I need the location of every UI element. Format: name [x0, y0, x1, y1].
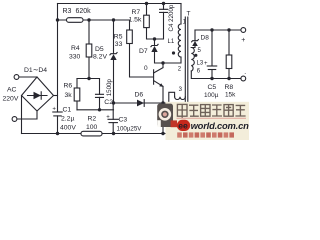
- node R3 left junction: [56, 18, 59, 21]
- node R8 bottom junction: [227, 77, 230, 80]
- svg-text:L1: L1: [168, 39, 175, 45]
- diode D7: [154, 39, 156, 45]
- svg-text:15k: 15k: [225, 91, 236, 98]
- diode D5 zener: [110, 53, 117, 55]
- node L1 phase dot: [172, 51, 175, 54]
- svg-text:33: 33: [115, 41, 123, 48]
- node R4 bottom junction: [87, 77, 90, 80]
- wire secondary bottom: [191, 71, 241, 79]
- svg-text:D1∼D4: D1∼D4: [24, 67, 47, 74]
- svg-text:8.2V: 8.2V: [93, 53, 107, 60]
- wire R6 C2 bottom link: [77, 109, 114, 111]
- resistor R6: [74, 88, 80, 101]
- capacitor C1: [53, 111, 62, 113]
- wire bottom rail: [22, 133, 191, 135]
- node L3 phase dot: [194, 54, 197, 57]
- resistor R7: [147, 4, 155, 40]
- svg-text:R4: R4: [71, 45, 80, 52]
- wire D5 branch: [113, 20, 115, 103]
- svg-text:100µ: 100µ: [204, 92, 219, 99]
- diode D8: [194, 30, 196, 41]
- node emitter D6 junction: [161, 101, 164, 104]
- svg-text:1: 1: [183, 20, 187, 26]
- node collector junction: [161, 61, 164, 64]
- transistor Q1 collector: [154, 63, 163, 73]
- wire bridge left vertex down: [21, 96, 23, 134]
- node D5 top junction: [112, 18, 115, 21]
- wire D6 row: [114, 102, 169, 104]
- svg-text:C2: C2: [104, 99, 113, 106]
- node C1 bottom junction: [56, 132, 59, 135]
- svg-text:R6: R6: [64, 82, 73, 89]
- capacitor C2: [96, 94, 104, 97]
- wire R3 row: [58, 19, 130, 21]
- transistor Q1 base bar: [153, 70, 155, 84]
- svg-text:1.5k: 1.5k: [129, 16, 142, 23]
- wire L2 hook: [169, 92, 175, 103]
- svg-text:1500p: 1500p: [106, 79, 113, 97]
- watermark: [157, 102, 249, 140]
- capacitor C4: [155, 4, 164, 40]
- wire left rail: [57, 4, 59, 113]
- svg-text:C5: C5: [208, 84, 217, 91]
- node C5 bottom junction: [210, 77, 213, 80]
- svg-text:220V: 220V: [3, 96, 19, 103]
- node R4 top junction: [87, 18, 90, 21]
- inductor L3 secondary winding: [191, 48, 194, 72]
- node C5 top junction: [210, 28, 213, 31]
- node R7 top junction: [145, 2, 148, 5]
- svg-text:T: T: [187, 11, 191, 18]
- svg-text:L3: L3: [197, 61, 204, 67]
- svg-text:D6: D6: [135, 91, 144, 98]
- svg-text:400V: 400V: [60, 124, 76, 131]
- resistor R4: [86, 44, 92, 57]
- resistor R2: [81, 131, 102, 136]
- bridge rectifier D1-D4: [22, 77, 54, 111]
- svg-text:R2: R2: [88, 115, 97, 122]
- wire C3 branch: [112, 103, 114, 134]
- svg-text:C1: C1: [63, 106, 72, 113]
- svg-text:C3: C3: [119, 116, 128, 123]
- watermark url line: [177, 120, 249, 131]
- wire R6 leg: [76, 79, 78, 110]
- resistor R3: [67, 18, 84, 23]
- svg-text:5: 5: [198, 48, 202, 54]
- svg-text:+: +: [241, 37, 245, 44]
- terminal AC input 1: [14, 75, 19, 80]
- wire bar R6 C2: [77, 78, 100, 80]
- watermark underline: [177, 117, 247, 119]
- svg-text:+: +: [52, 106, 56, 112]
- svg-text:330: 330: [69, 54, 81, 61]
- svg-text:620k: 620k: [76, 8, 92, 15]
- svg-text:R3: R3: [63, 8, 72, 15]
- transistor Q1 emitter: [154, 81, 163, 87]
- wire R4 branch: [88, 20, 90, 79]
- node R8 top junction: [227, 28, 230, 31]
- inductor L2 feedback winding: [175, 97, 186, 100]
- svg-text:AC: AC: [7, 87, 17, 94]
- wire emitter down: [162, 86, 164, 133]
- resistor R8: [228, 30, 230, 79]
- diode D6: [137, 100, 144, 107]
- inductor L1 primary winding: [178, 24, 181, 57]
- svg-text:ee: ee: [178, 121, 188, 131]
- svg-text:R7: R7: [132, 9, 141, 16]
- node C4 top junction: [162, 2, 165, 5]
- terminal DC output minus: [241, 76, 246, 81]
- svg-text:D8: D8: [201, 35, 210, 42]
- svg-text:100: 100: [86, 124, 98, 131]
- svg-text:3: 3: [179, 87, 183, 93]
- node emitter bottom junction: [161, 132, 164, 135]
- svg-text:0: 0: [144, 65, 148, 72]
- svg-text:D7: D7: [139, 48, 148, 55]
- node C3 bottom junction: [112, 132, 115, 135]
- wire output top rail: [195, 29, 241, 31]
- svg-text:2: 2: [178, 67, 182, 73]
- terminal AC input 2: [12, 117, 17, 122]
- svg-text:+: +: [204, 61, 208, 67]
- terminal DC output plus: [241, 28, 246, 33]
- svg-text:-: -: [245, 71, 247, 77]
- svg-text:R5: R5: [114, 33, 123, 40]
- svg-text:6: 6: [197, 69, 201, 75]
- node D6 anode junction: [112, 101, 115, 104]
- svg-text:3k: 3k: [65, 92, 73, 99]
- capacitor C3: [108, 118, 118, 120]
- svg-text:100µ25V: 100µ25V: [117, 126, 143, 133]
- wire top rail: [58, 3, 182, 5]
- svg-text:C4 2200p: C4 2200p: [168, 4, 175, 31]
- wire bridge right vertex link: [54, 95, 58, 97]
- svg-text:world.com.cn: world.com.cn: [191, 120, 249, 131]
- svg-text:R8: R8: [225, 84, 234, 91]
- wire primary pin2 link: [163, 57, 181, 63]
- watermark CJK line: [177, 104, 245, 118]
- node C2 bottom junction: [98, 108, 101, 111]
- svg-text:D5: D5: [95, 46, 104, 53]
- svg-text:+: +: [106, 115, 110, 121]
- transformer T primary wire: [180, 4, 182, 25]
- node snubber junction: [153, 37, 156, 40]
- resistor R5: [127, 30, 133, 44]
- wire R5 branch: [130, 20, 153, 77]
- wire C2 leg: [99, 79, 101, 110]
- transformer core: [185, 17, 188, 102]
- capacitor C5: [211, 30, 213, 79]
- watermark slogan line: [177, 132, 234, 137]
- svg-text:2.2µ: 2.2µ: [61, 116, 74, 123]
